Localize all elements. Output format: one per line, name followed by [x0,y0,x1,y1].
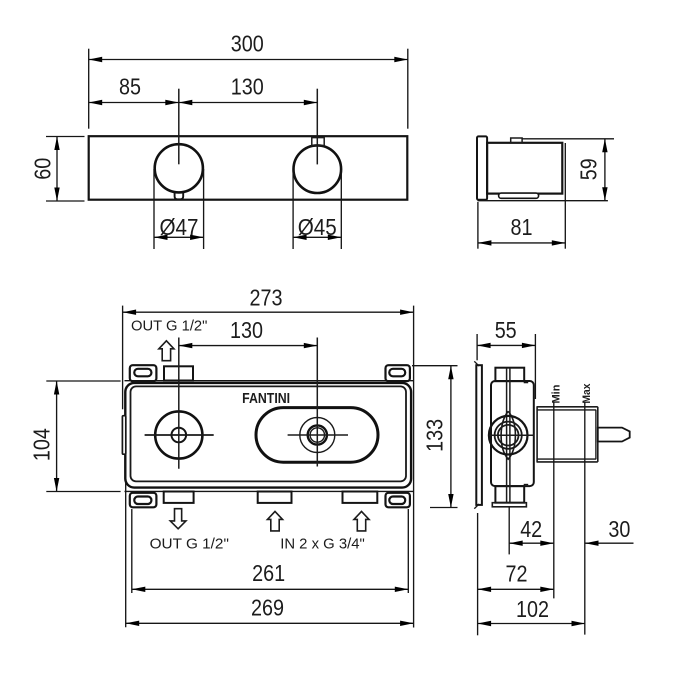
svg-text:85: 85 [119,73,141,99]
svg-text:133: 133 [422,419,448,452]
svg-text:30: 30 [608,516,630,542]
svg-text:OUT G 1/2": OUT G 1/2" [131,317,207,334]
svg-text:269: 269 [251,595,284,621]
svg-text:FANTINI: FANTINI [242,391,290,407]
svg-text:104: 104 [29,428,55,461]
svg-text:42: 42 [520,516,542,542]
svg-text:300: 300 [231,31,264,57]
svg-text:Ø47: Ø47 [160,214,199,240]
svg-text:81: 81 [511,214,533,240]
svg-text:261: 261 [252,560,285,586]
svg-text:Ø45: Ø45 [298,214,337,240]
svg-text:Max: Max [581,383,593,404]
svg-text:59: 59 [575,158,601,180]
svg-text:IN 2 x G 3/4": IN 2 x G 3/4" [280,535,365,552]
svg-text:OUT G 1/2": OUT G 1/2" [150,535,229,552]
svg-text:72: 72 [506,561,528,587]
svg-text:60: 60 [29,158,55,180]
svg-text:130: 130 [230,317,263,343]
svg-text:273: 273 [250,285,283,311]
svg-text:Min: Min [550,384,562,403]
svg-text:55: 55 [495,317,517,343]
svg-text:102: 102 [516,596,549,622]
svg-text:130: 130 [231,73,264,99]
